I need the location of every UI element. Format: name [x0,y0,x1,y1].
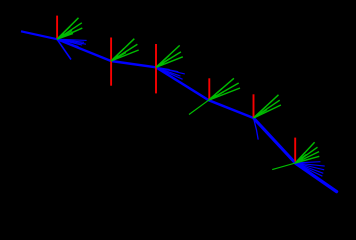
red marker at node 1 [56,16,58,39]
green fan rays at node 6 [295,142,319,163]
green fan at node 1 [57,33,65,39]
green fan at node 3 [156,61,164,67]
wire main track segment 6 [295,163,336,192]
wire main track segment 5 [254,118,296,163]
red marker at node 5 [253,94,255,118]
red marker at node 3 [155,44,157,93]
green fan rays at node 3 [156,45,183,67]
blue fan rays at node 3 [156,67,185,79]
green branch down-left at node 4 [189,100,209,114]
red marker at node 6 [294,138,296,162]
wire blue branch at node 5 [254,118,259,140]
red marker at node 4 [208,78,210,100]
wire main track segment 2 [111,61,156,67]
wire blue ray fan at node 6 [295,163,303,167]
green fan at node 6 [295,156,304,163]
wire blue branch at node 1 [57,39,71,59]
green fan rays at node 5 [254,95,281,118]
green fan rays at node 1 [57,18,82,39]
red marker at node 2 [110,38,112,86]
wire blue ray fan at node 3 [156,67,164,70]
blue fan rays at node 1 [57,39,87,47]
wire main track segment 4 [209,100,254,118]
green fan at node 2 [111,55,119,61]
wire blue ray fan at node 1 [57,39,65,42]
wire main track segment 3 [156,67,209,100]
green fan rays at node 2 [111,39,139,61]
green fan at node 5 [254,112,262,118]
wire main track segment 0 [21,31,57,39]
green branch down-left at node 6 [272,163,295,170]
green fan at node 4 [209,94,217,100]
blue fan rays at node 6 [295,162,324,177]
green fan rays at node 4 [209,78,240,100]
wire main track segment 1 [57,39,111,61]
